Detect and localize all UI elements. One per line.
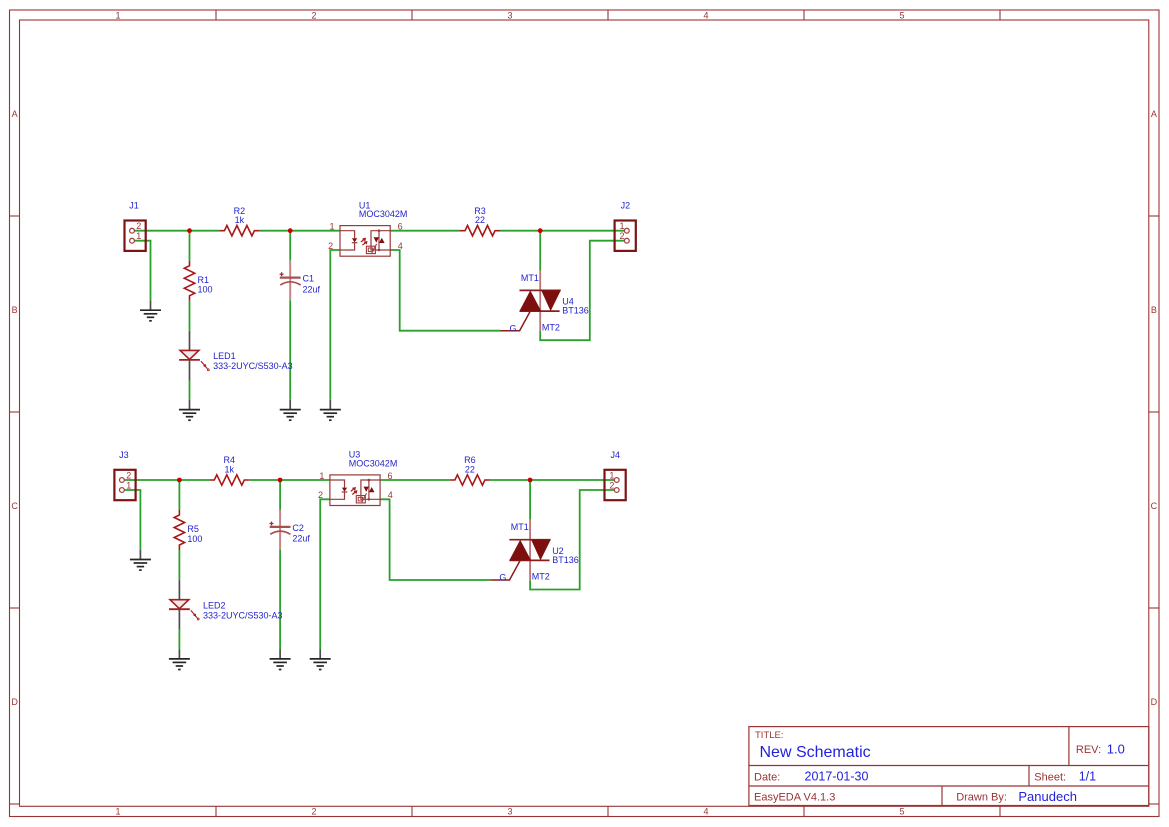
wire [279,550,281,650]
wire [189,301,191,331]
svg-text:A: A [12,109,18,119]
wire [122,490,140,550]
svg-text:MT1: MT1 [521,273,539,283]
svg-text:4: 4 [398,241,403,251]
svg-text:2: 2 [328,241,333,251]
svg-text:G: G [499,573,506,583]
svg-text:MOC3042M: MOC3042M [359,209,408,219]
svg-text:C1: C1 [303,274,315,284]
svg-text:333-2UYC/S530-A3: 333-2UYC/S530-A3 [203,610,283,620]
svg-text:REV:: REV: [1076,744,1101,756]
optocoupler U3 (MOC3042M) [318,450,397,506]
svg-text:Drawn By:: Drawn By: [956,792,1007,804]
svg-text:BT136: BT136 [552,555,579,565]
junction node U2 MT1 [528,478,533,483]
svg-text:3: 3 [507,10,512,20]
frame column numbers top [115,10,904,20]
svg-text:100: 100 [198,285,213,295]
svg-text:4: 4 [388,490,393,500]
wire [178,550,180,580]
svg-text:2: 2 [136,221,141,231]
wire [320,499,330,649]
svg-text:5: 5 [899,10,904,20]
svg-text:1: 1 [319,471,324,481]
LED LED2 (333-2UYC/S530-A3) [169,580,283,630]
ground [179,400,200,420]
svg-text:3: 3 [507,806,512,816]
svg-text:5: 5 [899,806,904,816]
wire [380,479,450,481]
svg-text:1: 1 [115,806,120,816]
resistor R6 (22) [450,455,490,485]
ground [130,550,151,570]
svg-text:1: 1 [126,481,131,491]
svg-text:J3: J3 [119,450,129,460]
wire [132,241,151,301]
svg-text:2: 2 [126,471,131,481]
resistor R3 (22) [460,206,500,236]
svg-text:6: 6 [387,471,392,481]
svg-text:New Schematic: New Schematic [760,744,871,761]
ground [169,649,190,669]
svg-text:B: B [1151,305,1157,315]
ground [320,400,341,420]
wire [529,480,531,520]
junction node R5 top [177,478,182,483]
svg-text:1: 1 [115,10,120,20]
svg-text:MOC3042M: MOC3042M [349,459,398,469]
wire [500,230,627,232]
wire [279,480,281,510]
wire [390,250,500,331]
wire [539,231,541,271]
svg-text:TITLE:: TITLE: [755,730,784,741]
LED LED1 (333-2UYC/S530-A3) [179,331,293,381]
capacitor C1 (22uf) [280,261,321,301]
svg-text:2: 2 [311,806,316,816]
svg-text:1: 1 [609,471,614,481]
svg-text:333-2UYC/S530-A3: 333-2UYC/S530-A3 [213,361,293,371]
svg-text:2: 2 [311,10,316,20]
svg-text:22uf: 22uf [303,284,321,294]
svg-text:4: 4 [703,10,708,20]
svg-text:J1: J1 [129,201,139,211]
svg-text:1.0: 1.0 [1107,742,1125,757]
svg-text:D: D [1151,697,1158,707]
junction node U4 MT1 [538,228,543,233]
svg-text:22: 22 [465,464,475,474]
svg-text:4: 4 [703,806,708,816]
wire [259,230,340,232]
wire [189,231,191,261]
junction node R1 top [187,228,192,233]
wire [132,230,219,232]
svg-text:C: C [11,501,18,511]
junction node C2 top [278,478,283,483]
wire [540,241,627,341]
wire [390,230,460,232]
wire [178,630,180,649]
svg-text:2: 2 [318,490,323,500]
triac U2 (BT136) [490,520,578,583]
svg-text:LED2: LED2 [203,600,226,610]
wire [189,381,191,400]
resistor R5 (100) [174,510,202,550]
svg-text:1: 1 [329,222,334,232]
ground [140,300,161,320]
svg-text:R1: R1 [198,275,210,285]
wire [249,479,330,481]
triac U4 (BT136) [501,270,589,333]
svg-text:A: A [1151,109,1157,119]
svg-text:BT136: BT136 [562,306,589,316]
svg-text:J2: J2 [621,201,631,211]
svg-text:Panudech: Panudech [1018,789,1077,804]
svg-text:1k: 1k [225,464,235,474]
resistor R2 (1k) [219,206,259,236]
svg-text:MT2: MT2 [542,322,560,332]
wire [178,480,180,510]
wire [330,250,340,400]
connector J3 [114,450,135,500]
wire [289,300,291,400]
svg-text:1: 1 [136,231,141,241]
wire [490,479,617,481]
optocoupler U1 (MOC3042M) [328,200,407,256]
wire [289,231,291,261]
svg-text:2: 2 [609,481,614,491]
frame column numbers bottom [115,806,904,816]
ground [280,400,301,420]
svg-text:LED1: LED1 [213,351,236,361]
svg-text:D: D [11,697,18,707]
svg-text:1: 1 [619,221,624,231]
svg-text:Date:: Date: [754,772,780,784]
frame row letters right [1151,109,1158,707]
ground [310,649,331,669]
svg-text:R5: R5 [187,524,199,534]
wire [530,490,617,590]
svg-text:C: C [1151,501,1158,511]
resistor R4 (1k) [209,455,249,485]
svg-text:J4: J4 [611,450,621,460]
junction node C1 top [288,228,293,233]
svg-text:22: 22 [475,215,485,225]
frame row letters left [11,109,18,707]
svg-text:2017-01-30: 2017-01-30 [805,770,869,784]
wire [380,499,490,580]
svg-text:Sheet:: Sheet: [1034,772,1066,784]
svg-text:MT1: MT1 [511,522,529,532]
resistor R1 (100) [184,261,212,301]
connector J2 [615,201,636,251]
svg-text:EasyEDA V4.1.3: EasyEDA V4.1.3 [754,792,835,804]
connector J1 [125,201,146,251]
title block [749,727,1149,806]
title block texts [754,730,1125,804]
svg-text:1k: 1k [235,215,245,225]
ground [270,649,291,669]
svg-text:C2: C2 [292,523,304,533]
svg-text:1/1: 1/1 [1079,770,1096,784]
svg-text:MT2: MT2 [532,572,550,582]
svg-text:100: 100 [187,534,202,544]
svg-text:G: G [509,323,516,333]
svg-text:22uf: 22uf [292,534,310,544]
svg-text:6: 6 [398,222,403,232]
wire [122,479,209,481]
capacitor C2 (22uf) [270,510,311,550]
connector J4 [605,450,626,500]
svg-text:2: 2 [619,231,624,241]
svg-text:B: B [12,305,18,315]
